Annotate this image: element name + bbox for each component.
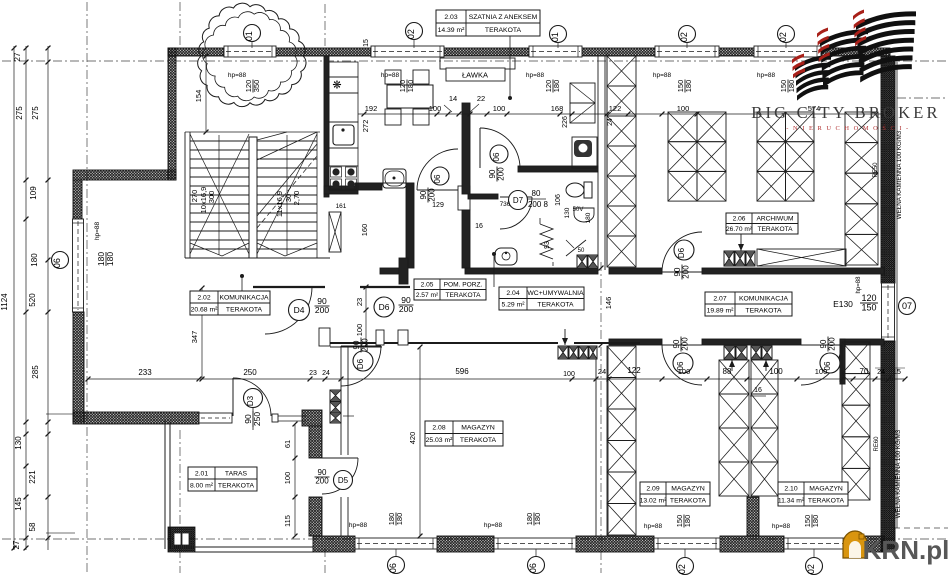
wall 2.06 west column (606, 53, 608, 267)
window mark 06 left wall (52, 252, 69, 269)
svg-text:TERAKOTA: TERAKOTA (485, 27, 522, 34)
svg-text:- N I E R U C H O M O Ś C I -: - N I E R U C H O M O Ś C I - (786, 124, 909, 132)
svg-text:109: 109 (29, 186, 38, 200)
svg-text:192: 192 (365, 104, 378, 113)
svg-text:D5: D5 (338, 476, 349, 485)
dim chain left x=26 (25, 46, 27, 550)
svg-text:hp=88: hp=88 (349, 522, 368, 529)
svg-text:61: 61 (283, 440, 292, 448)
svg-text:272: 272 (361, 120, 370, 133)
svg-text:300: 300 (207, 191, 216, 204)
door anteroom (480, 128, 520, 168)
svg-text:TERAKOTA: TERAKOTA (757, 226, 793, 233)
door D4 mark circle (289, 300, 310, 321)
room label 2.01 (188, 467, 257, 491)
stairs diagonal right X (257, 134, 317, 254)
svg-text:MAGAZYN: MAGAZYN (809, 485, 843, 492)
svg-text:200: 200 (399, 304, 413, 314)
svg-text:E130: E130 (833, 299, 853, 309)
svg-text:122: 122 (627, 366, 641, 375)
terrace railing west (164, 421, 166, 549)
window T4 top (655, 46, 719, 57)
shaft boxes 2.08 west (330, 390, 341, 401)
svg-text:180: 180 (683, 515, 692, 528)
wall bathroom south y=271 (465, 268, 598, 274)
svg-text:596: 596 (455, 367, 469, 376)
wall left lower (73, 312, 84, 422)
svg-text:161: 161 (336, 203, 347, 210)
wall stair-kitchen divider x=325 (324, 56, 329, 197)
wall wc east x=598 (597, 56, 599, 270)
rack R4 horizontal 2.06 (757, 249, 846, 266)
shower symbol (566, 240, 586, 256)
svg-text:02: 02 (806, 564, 816, 574)
stairs diagonal left X (190, 134, 249, 254)
svg-text:02: 02 (406, 29, 416, 39)
svg-text:285: 285 (31, 365, 40, 379)
wall 2.09/2.10 divider (747, 497, 759, 536)
room label 2.09 (640, 482, 710, 506)
door 2.06 mark D6 (674, 240, 694, 260)
svg-text:90: 90 (318, 468, 327, 477)
svg-text:02: 02 (679, 32, 689, 42)
svg-text:23: 23 (355, 298, 364, 306)
window B1 bottom (355, 538, 437, 549)
axis stub y=414 left (46, 413, 75, 415)
svg-text:KRN.pl: KRN.pl (863, 535, 950, 565)
wall 2.06 south y=272 (609, 268, 662, 274)
svg-text:KOMUNIKACJA: KOMUNIKACJA (219, 294, 269, 301)
door 2.06 archiwum (662, 232, 702, 272)
svg-text:88: 88 (723, 367, 732, 376)
svg-text:24: 24 (877, 369, 885, 376)
svg-text:MAGAZYN: MAGAZYN (671, 485, 705, 492)
dim vertical x=420 420 (419, 347, 421, 536)
axis line horizontal y=61 (2, 60, 948, 62)
column A shaft upper (607, 56, 636, 86)
svg-text:8.00 m²: 8.00 m² (190, 482, 214, 489)
window mark T3 01 (550, 26, 567, 43)
wall 2.05 north jamb (458, 186, 470, 210)
svg-text:25.03 m²: 25.03 m² (426, 437, 454, 444)
svg-text:2.04: 2.04 (506, 290, 519, 297)
svg-text:180: 180 (105, 252, 115, 266)
svg-text:154: 154 (194, 90, 203, 103)
wall right lower (881, 341, 895, 552)
svg-text:180: 180 (395, 513, 404, 526)
svg-text:02: 02 (778, 32, 788, 42)
door D6 upper mark circle (374, 297, 394, 317)
wall 2.08 north jamb (376, 330, 384, 345)
column A shaft lower (607, 346, 636, 378)
svg-text:150: 150 (861, 303, 876, 313)
svg-text:100: 100 (769, 367, 783, 376)
svg-text:90: 90 (672, 339, 681, 348)
svg-text:WEŁNA KAMIENNA 100 KG/M3: WEŁNA KAMIENNA 100 KG/M3 (895, 429, 902, 518)
svg-text:100: 100 (677, 104, 690, 113)
window mark B3 02 (677, 558, 694, 575)
wall 2.05 west x=410 (406, 183, 414, 268)
svg-text:TERAKOTA: TERAKOTA (537, 302, 574, 309)
table (387, 85, 433, 108)
svg-text:221: 221 (28, 470, 37, 484)
shaft boxes 2.06 south (724, 251, 734, 266)
svg-text:180: 180 (406, 80, 415, 93)
wall bathroom north y=170 (518, 166, 598, 172)
axis line horizontal y=539 (2, 538, 948, 540)
dim vertical x=295 terrace (294, 424, 296, 536)
svg-text:KOMUNIKACJA: KOMUNIKACJA (739, 295, 789, 302)
terrace corner post (168, 527, 195, 552)
wall 2.05 south (380, 268, 407, 274)
kitchen shaft below (329, 212, 341, 252)
door sill D3 (278, 415, 306, 417)
door D4 corridor (265, 287, 312, 334)
room label 2.07 (705, 292, 792, 316)
svg-text:200: 200 (682, 265, 691, 279)
svg-text:22: 22 (477, 94, 485, 103)
door D5 size 90/200 (315, 468, 330, 486)
svg-text:06: 06 (52, 258, 62, 268)
krn logo icon (843, 531, 867, 558)
wall corridor jamb x=842 (840, 339, 845, 384)
door corridor east size (819, 337, 837, 352)
wall left upper (168, 48, 176, 180)
svg-text:180: 180 (787, 80, 796, 93)
terrace railing south (174, 546, 313, 548)
door anteroom mark 06 (490, 145, 508, 163)
wall terrace east upper (309, 426, 322, 458)
svg-text:01: 01 (244, 31, 254, 41)
svg-text:D7: D7 (513, 196, 524, 205)
wall 2.08 north y=344 (330, 342, 558, 344)
svg-text:100: 100 (429, 104, 442, 113)
svg-text:2.09: 2.09 (646, 485, 659, 492)
door corridor west 06 (662, 345, 702, 385)
kitchen fridge snowflake (336, 84, 338, 86)
door D4 size 90/200 (315, 296, 330, 315)
kitchen sink (329, 122, 358, 148)
door D3 size 90/250 (243, 411, 262, 427)
column B corridor south (719, 360, 749, 394)
svg-text:120: 120 (861, 293, 876, 303)
svg-text:200: 200 (315, 477, 329, 486)
wall terrace north (73, 412, 199, 424)
svg-text:MAGAZYN: MAGAZYN (461, 425, 495, 432)
svg-text:200: 200 (361, 338, 370, 352)
svg-text:2.05: 2.05 (421, 282, 434, 289)
axis line vertical x=601 (600, 262, 602, 573)
svg-text:27: 27 (13, 52, 22, 61)
svg-text:23: 23 (309, 370, 317, 377)
svg-text:07: 07 (902, 301, 912, 311)
svg-text:WC+UMYWALNIA: WC+UMYWALNIA (527, 290, 584, 297)
svg-text:200: 200 (497, 167, 506, 181)
window T1 top (224, 46, 276, 57)
svg-text:14: 14 (449, 94, 457, 103)
door corridor west mark (673, 353, 693, 373)
svg-text:420: 420 (408, 432, 417, 445)
wall left step (73, 170, 176, 180)
window mark B1 06 (388, 557, 405, 574)
arrow into 2.06 (740, 234, 742, 251)
svg-text:90: 90 (673, 267, 682, 276)
svg-text:2,70: 2,70 (292, 191, 301, 206)
svg-text:16: 16 (754, 387, 762, 394)
svg-text:115: 115 (283, 515, 292, 527)
kitchen cabinets (329, 62, 358, 77)
axis line vertical x=180 (179, 2, 181, 48)
door corridor east mark (820, 353, 840, 373)
svg-text:hp=88: hp=88 (94, 221, 101, 240)
shaft boxes corridor 2 (751, 346, 761, 359)
stairs steps right flight (257, 140, 317, 142)
svg-text:180: 180 (533, 513, 542, 526)
door 2.03 mark 06 (431, 167, 449, 185)
wall right outer line (896, 56, 898, 528)
window right wall E130 (882, 283, 895, 341)
svg-text:2.03: 2.03 (444, 14, 457, 21)
svg-text:SZATNIA Z ANEKSEM: SZATNIA Z ANEKSEM (469, 14, 538, 21)
svg-text:90: 90 (352, 340, 361, 349)
arrow into 2.08 (564, 329, 566, 345)
chair 3 (385, 109, 401, 125)
svg-text:24: 24 (607, 118, 614, 126)
svg-text:RE50: RE50 (873, 162, 879, 178)
column D right south (842, 342, 870, 374)
svg-text:hp=88: hp=88 (484, 522, 503, 529)
svg-text:hp=88: hp=88 (856, 276, 862, 294)
svg-text:180: 180 (552, 80, 561, 93)
arrow corridor 2 (765, 360, 767, 371)
wardrobe cells anteroom (570, 83, 595, 103)
column C corridor south (751, 360, 778, 394)
svg-text:13.02 m²: 13.02 m² (640, 497, 668, 504)
svg-text:WEŁNA KAMIENNA 100 KG/M3: WEŁNA KAMIENNA 100 KG/M3 (896, 130, 903, 219)
svg-text:275: 275 (31, 106, 40, 120)
room label 2.02 (190, 291, 270, 315)
window mark T4 02 (679, 26, 696, 43)
svg-text:ARCHIWUM: ARCHIWUM (757, 216, 794, 223)
svg-text:02: 02 (677, 564, 687, 574)
svg-text:ŁAWKA: ŁAWKA (462, 71, 488, 80)
svg-text:80: 80 (532, 189, 541, 198)
svg-text:180: 180 (585, 212, 592, 223)
leader dot 2.04 (492, 252, 496, 256)
door anteroom size 90/200 (488, 167, 506, 182)
room label 2.10 (778, 482, 848, 506)
dim vertical x=202 347 (201, 288, 203, 379)
window B4 bottom (784, 538, 847, 549)
window mark T5 02 (778, 26, 795, 43)
door D7 bathroom (500, 197, 532, 229)
counter with sink anteroom (572, 137, 597, 168)
svg-text:BIG CITY BROKER: BIG CITY BROKER (751, 103, 940, 122)
svg-text:200: 200 (315, 305, 329, 315)
stairs mid stringer (249, 137, 257, 258)
svg-text:233: 233 (138, 368, 152, 377)
radiator zigzag (540, 224, 553, 259)
svg-text:160: 160 (360, 224, 369, 237)
wall corridor mid 2.02 y=287 (253, 286, 325, 288)
door 2.03 size 90/200 (419, 188, 437, 203)
svg-text:2.10: 2.10 (784, 485, 797, 492)
wall 2.05 sw jamb (399, 258, 408, 284)
rack R3 right (845, 112, 878, 143)
stairs cut diagonal right (257, 144, 317, 216)
washbasin south (495, 248, 517, 265)
svg-text:180: 180 (811, 515, 820, 528)
svg-text:RE60: RE60 (874, 436, 880, 452)
shaft bathroom SE (577, 255, 587, 268)
svg-text:hp=88: hp=88 (381, 72, 400, 79)
revision cloud (198, 3, 306, 106)
room label 2.08 (425, 421, 503, 446)
small sink (574, 208, 594, 222)
svg-text:130: 130 (14, 436, 23, 450)
svg-text:D3: D3 (246, 395, 255, 406)
svg-text:hp=88: hp=88 (653, 72, 672, 79)
door corridor east 06 (801, 345, 841, 385)
room label 2.06 (726, 213, 798, 234)
chair 2 (413, 70, 429, 84)
door D6b size 90/200 (399, 295, 414, 314)
svg-text:2.06: 2.06 (733, 216, 746, 223)
arrow corridor 1 (731, 360, 733, 371)
svg-text:24: 24 (598, 367, 606, 376)
wall room2.03 south (355, 183, 382, 190)
wall corridor 2.07 south y=342 (609, 339, 662, 345)
door D6a mark circle (353, 351, 373, 371)
window left wall (73, 219, 84, 312)
wall right (881, 56, 895, 283)
svg-text:06: 06 (388, 563, 398, 573)
svg-text:D4: D4 (294, 305, 305, 315)
window terrace north (199, 413, 232, 423)
svg-text:90: 90 (488, 169, 497, 178)
svg-text:06: 06 (433, 174, 442, 183)
svg-text:200: 200 (681, 337, 690, 351)
svg-text:100: 100 (283, 472, 292, 485)
wall bathroom partition y=196 (468, 194, 498, 199)
window B3 bottom (654, 538, 720, 549)
axis stub y=533 left (46, 532, 75, 534)
kitchen stove (329, 166, 358, 190)
svg-text:130: 130 (564, 207, 571, 218)
bench label LAWKA (446, 68, 505, 81)
kitchen counter mid (329, 148, 358, 166)
svg-text:275: 275 (15, 106, 24, 120)
svg-text:270: 270 (190, 190, 199, 203)
svg-text:hp=88: hp=88 (772, 523, 791, 530)
svg-text:TERAKOTA: TERAKOTA (670, 497, 707, 504)
svg-text:145: 145 (14, 497, 23, 511)
window T3 top (529, 46, 582, 57)
svg-text:122: 122 (609, 104, 622, 113)
svg-text:90: 90 (419, 190, 428, 199)
door D5 (322, 458, 358, 494)
svg-text:736: 736 (500, 201, 511, 208)
stairs top diagonal right (257, 132, 317, 160)
door 2.06 size 90/200 (673, 265, 691, 280)
stairs steps left flight (190, 140, 249, 142)
dim chain left x=14 (13, 46, 15, 550)
axis stub right top y=98 (897, 97, 948, 99)
shaft boxes 2.08 north (558, 346, 568, 359)
svg-text:27: 27 (12, 540, 21, 549)
svg-text:hp=88: hp=88 (228, 72, 247, 79)
chair 1 (385, 70, 401, 84)
bench rectangle (440, 58, 515, 69)
washing machine 2.03 (383, 169, 406, 188)
window T2 top (371, 46, 444, 57)
chair 4 (413, 109, 429, 125)
svg-text:16: 16 (475, 223, 483, 230)
stairs bottom break (190, 243, 222, 256)
window mark B4 02 (806, 558, 823, 575)
axis line vertical x=87 (86, 2, 88, 573)
wall stub x=320 y330-345 (319, 328, 330, 346)
svg-text:24: 24 (322, 370, 330, 377)
svg-text:100: 100 (563, 371, 575, 378)
door corridor west size (672, 337, 690, 352)
svg-text:TERAKOTA: TERAKOTA (745, 307, 782, 314)
svg-text:11.34 m²: 11.34 m² (778, 497, 805, 504)
room label 2.04 (499, 287, 584, 310)
svg-text:100: 100 (815, 367, 828, 376)
svg-text:hp=88: hp=88 (526, 72, 545, 79)
svg-text:168: 168 (551, 104, 564, 113)
svg-text:11x16,9: 11x16,9 (275, 191, 284, 217)
svg-text:hp=88: hp=88 (757, 72, 776, 79)
dim vertical x=366 (365, 287, 367, 345)
svg-text:90: 90 (819, 339, 828, 348)
svg-text:146: 146 (604, 297, 613, 310)
door D6a size 90/200 (352, 338, 370, 353)
wall terrace east lower (309, 497, 322, 536)
room label 2.03 (436, 10, 540, 36)
svg-text:19.89 m²: 19.89 m² (707, 307, 735, 314)
svg-text:129: 129 (432, 202, 444, 209)
wall bathroom west x=466 (462, 210, 470, 268)
svg-text:❋: ❋ (332, 80, 341, 92)
svg-text:TERAKOTA: TERAKOTA (460, 437, 497, 444)
door D7 mark circle (509, 191, 528, 210)
door 2.03 D6 into room (417, 149, 458, 190)
toilet 1 (566, 183, 584, 197)
dim chain top y=114 (358, 113, 884, 115)
svg-text:347: 347 (190, 331, 199, 344)
dim 24 146 tick (599, 343, 604, 348)
svg-text:520: 520 (28, 293, 37, 307)
svg-text:350: 350 (252, 80, 261, 93)
svg-text:26.70 m²: 26.70 m² (726, 226, 753, 233)
wall top (168, 48, 224, 56)
svg-text:hp=88: hp=88 (644, 523, 663, 530)
door D3 terrace (233, 378, 271, 416)
svg-text:D6: D6 (356, 358, 365, 369)
svg-text:180: 180 (684, 80, 693, 93)
wall anteroom west x=466 (462, 103, 470, 194)
wall jamb terrace door east (272, 414, 278, 422)
svg-text:106: 106 (555, 194, 562, 206)
svg-text:15: 15 (363, 39, 370, 47)
room label 2.05 (414, 279, 486, 300)
svg-text:226: 226 (562, 116, 569, 128)
wall terrace ne corner (302, 410, 322, 426)
dim 154 stair room (205, 56, 207, 132)
window mark T2 02 (406, 23, 423, 40)
